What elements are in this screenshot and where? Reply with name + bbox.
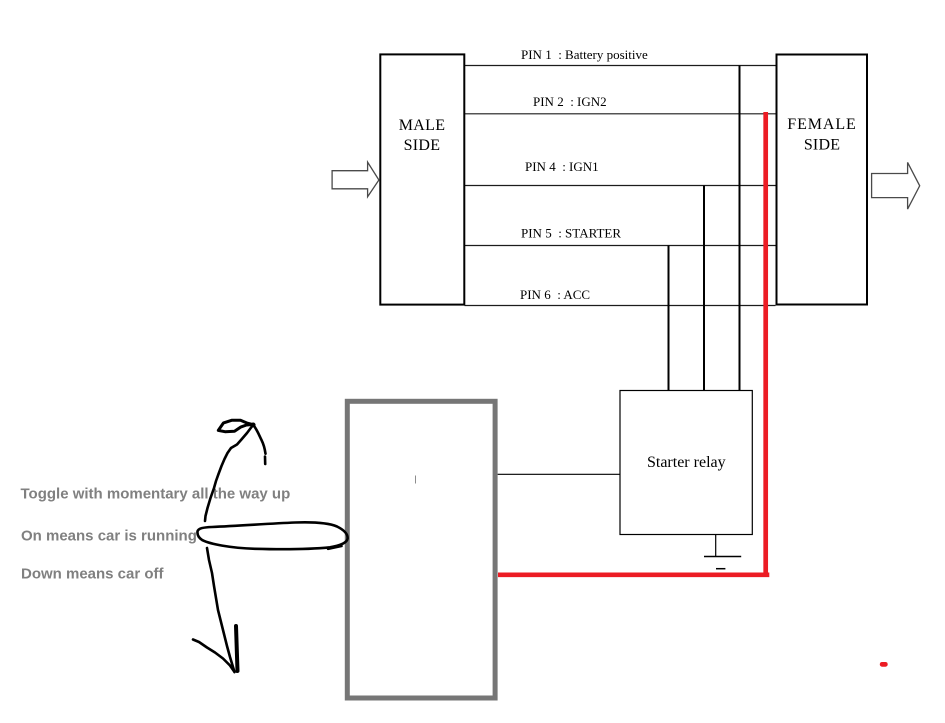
svg-text:PIN 5 : STARTER: PIN 5 : STARTER — [521, 226, 621, 241]
svg-text:Starter relay: Starter relay — [647, 454, 726, 471]
svg-text:PIN 1 : Battery positive: PIN 1 : Battery positive — [521, 47, 648, 62]
svg-text:PIN 6 : ACC: PIN 6 : ACC — [520, 287, 590, 302]
svg-text:PIN 4 : IGN1: PIN 4 : IGN1 — [525, 159, 599, 174]
svg-text:PIN 2 : IGN2: PIN 2 : IGN2 — [533, 94, 607, 109]
svg-text:On means car is running: On means car is running — [21, 528, 197, 545]
svg-text:MALE: MALE — [399, 117, 446, 134]
svg-text:SIDE: SIDE — [404, 137, 441, 154]
svg-text:Down means car off: Down means car off — [21, 566, 165, 583]
svg-text:FEMALE: FEMALE — [787, 116, 856, 133]
svg-text:Toggle with momentary all the: Toggle with momentary all the way up — [21, 486, 291, 503]
svg-text:SIDE: SIDE — [804, 137, 840, 154]
